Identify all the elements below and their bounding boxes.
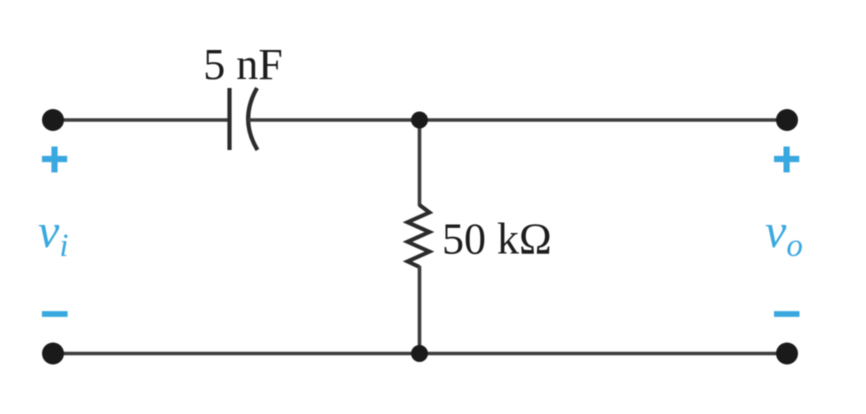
wire capacitor to top junction	[248, 118, 420, 122]
plus sign right	[774, 147, 799, 173]
svg-text:vo: vo	[765, 205, 803, 264]
svg-text:vi: vi	[38, 205, 68, 264]
wire vertical branch lower segment	[418, 266, 422, 354]
minus sign right	[774, 311, 800, 317]
svg-text:5 nF: 5 nF	[203, 40, 282, 89]
terminal dot top-right	[776, 109, 798, 131]
minus sign left	[42, 311, 68, 317]
wire top-left segment	[53, 118, 229, 122]
terminal dot top-left	[42, 109, 64, 131]
plus sign left	[42, 147, 67, 173]
wire top junction to right terminal	[420, 118, 788, 122]
junction node top	[411, 112, 428, 129]
terminal dot bottom-left	[42, 343, 64, 365]
capacitor C1 left plate	[227, 88, 231, 150]
wire bottom	[53, 352, 787, 356]
terminal dot bottom-right	[776, 343, 798, 365]
resistor R1 zigzag	[408, 205, 430, 267]
junction node bottom	[411, 345, 428, 362]
capacitor C1 right curved plate	[248, 88, 257, 150]
wire vertical branch upper segment	[418, 120, 422, 206]
svg-text:50 kΩ: 50 kΩ	[442, 215, 552, 264]
